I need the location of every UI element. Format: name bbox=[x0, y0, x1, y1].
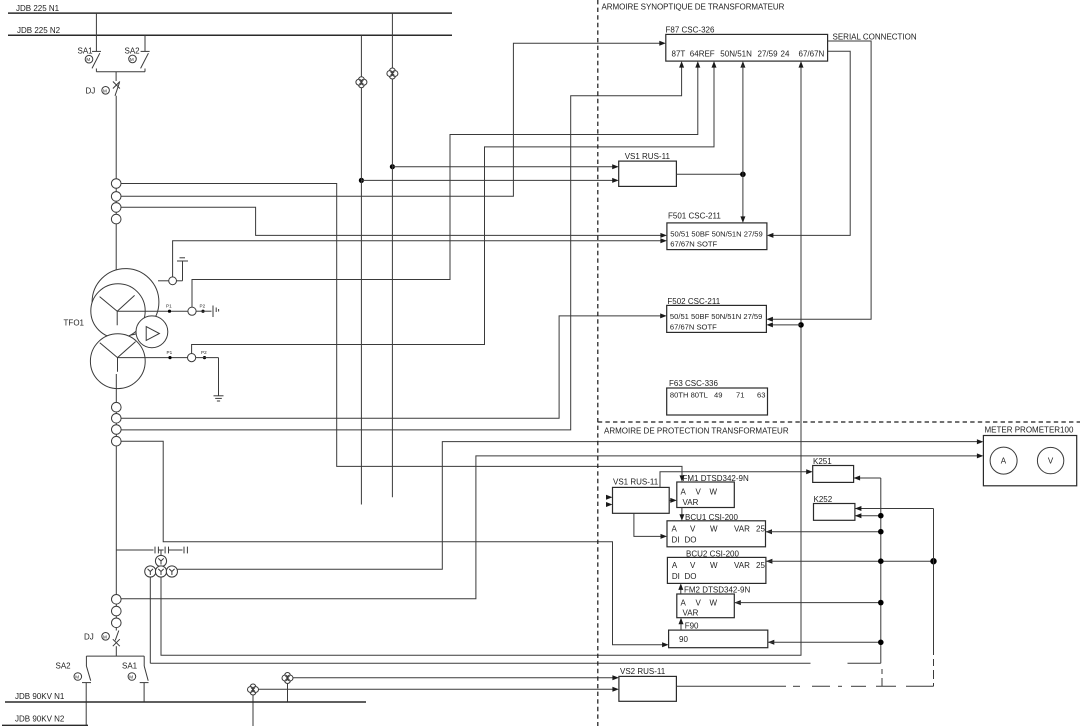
svg-text:M: M bbox=[103, 634, 107, 639]
svg-text:80TH 80TL: 80TH 80TL bbox=[670, 390, 708, 399]
svg-text:SERIAL CONNECTION: SERIAL CONNECTION bbox=[833, 33, 917, 42]
pin arrows into VS2 left bbox=[612, 675, 619, 680]
svg-text:P1: P1 bbox=[166, 304, 172, 309]
svg-text:W: W bbox=[710, 524, 718, 533]
circuit breaker DJ (bottom) bbox=[84, 631, 120, 657]
node junction dot K252 chain bbox=[878, 513, 884, 519]
wire CT2 to F87 left pin bbox=[121, 43, 662, 196]
node junction dot N2-drop to VS1 bbox=[359, 178, 364, 183]
svg-text:63: 63 bbox=[757, 390, 765, 399]
wire K252 right input 1 from VS2 riser bbox=[855, 508, 934, 510]
CT group 90kV side (4 cores) bbox=[112, 402, 122, 446]
wire N2-drop to VS1 lower input 2 bbox=[606, 502, 613, 507]
wire N2-drop to VS1 upper input 2 bbox=[361, 179, 615, 181]
svg-text:P1: P1 bbox=[167, 350, 173, 355]
svg-text:DI: DI bbox=[672, 572, 680, 581]
disconnector SA2 (bottom) bbox=[56, 656, 92, 726]
tertiary neutral CT circle bbox=[169, 277, 177, 285]
svg-text:K252: K252 bbox=[814, 495, 833, 504]
svg-text:SA2: SA2 bbox=[125, 47, 141, 56]
wire 90kV CT3 to 87T of F87 bbox=[121, 65, 682, 430]
wire LV neutral CT to 50N/51N of F87 bbox=[192, 65, 714, 354]
node junction dot BCU2 voltage chain bbox=[878, 558, 884, 564]
node junction dot BCU2 VS2 riser bbox=[930, 558, 936, 564]
wire measurement CT to meter A bbox=[121, 456, 979, 599]
busbar JDB 90KV N1 bbox=[5, 692, 366, 702]
svg-text:87T: 87T bbox=[672, 49, 686, 58]
pin arrow into F501 top bbox=[740, 216, 745, 223]
svg-text:A: A bbox=[672, 524, 678, 533]
relay F87 CSC-326 bbox=[666, 25, 828, 61]
svg-text:TFO1: TFO1 bbox=[64, 319, 85, 328]
svg-text:67/67N: 67/67N bbox=[799, 49, 825, 58]
busbar JDB 225 N1 bbox=[8, 4, 452, 13]
svg-text:25: 25 bbox=[756, 524, 765, 533]
svg-text:V: V bbox=[690, 561, 696, 570]
wire tertiary neutral CT to F501 input 2 bbox=[173, 241, 663, 277]
busbar JDB 90KV N2 bbox=[2, 715, 88, 726]
svg-text:DO: DO bbox=[685, 536, 697, 545]
pin arrows into F87 bottom bbox=[679, 61, 684, 68]
svg-text:VAR: VAR bbox=[683, 609, 699, 618]
relay K251 bbox=[813, 457, 854, 482]
svg-text:A: A bbox=[672, 561, 678, 570]
pin arrow into F90 right bbox=[768, 640, 775, 645]
svg-text:M: M bbox=[75, 675, 79, 680]
svg-text:49: 49 bbox=[714, 390, 722, 399]
node junction dot F90 voltage bbox=[878, 640, 884, 646]
wire CT1 drop into FM1 top (arrow) bbox=[680, 475, 685, 482]
svg-text:F90: F90 bbox=[685, 621, 699, 630]
wire HV neutral CT to 64REF of F87 bbox=[192, 65, 698, 307]
circuit breaker DJ (top) bbox=[86, 72, 120, 96]
wire F87 right stub to F501 right bbox=[770, 51, 850, 235]
node junction dot N1-drop to VS1 bbox=[390, 164, 395, 169]
svg-text:VS1 RUS-11: VS1 RUS-11 bbox=[625, 152, 671, 161]
busbar JDB 225 N2 bbox=[8, 26, 452, 36]
wire VT left secondary (line B) to relay chain bbox=[150, 478, 881, 663]
svg-text:P2: P2 bbox=[200, 304, 206, 309]
svg-text:24: 24 bbox=[781, 49, 790, 58]
wire 27/59 pin drop to F501 top bbox=[742, 65, 744, 220]
svg-text:ARMOIRE DE PROTECTION TRANSFOR: ARMOIRE DE PROTECTION TRANSFORMATEUR bbox=[604, 427, 789, 436]
indicator lamp on 90kV N2 bbox=[248, 684, 259, 726]
HV winding circle (wye) bbox=[91, 284, 145, 338]
LV neutral line P1 P2 bbox=[118, 350, 219, 396]
svg-text:W: W bbox=[710, 598, 718, 607]
pin arrow into F502 left bbox=[660, 313, 667, 318]
svg-text:METER PROMETER100: METER PROMETER100 bbox=[985, 425, 1074, 434]
svg-text:V: V bbox=[690, 524, 696, 533]
pin arrow into F501 right bbox=[767, 233, 774, 238]
svg-text:71: 71 bbox=[736, 390, 744, 399]
wire common bar of SA1/SA2 to DJ bbox=[96, 71, 145, 73]
svg-text:P2: P2 bbox=[201, 350, 207, 355]
svg-text:25: 25 bbox=[756, 561, 765, 570]
wire F90 right to voltage chain bbox=[768, 641, 881, 643]
LV winding circle (wye) bbox=[90, 334, 145, 389]
svg-text:VS1 RUS-11: VS1 RUS-11 bbox=[613, 477, 659, 486]
svg-text:A: A bbox=[681, 598, 687, 607]
svg-text:F501 CSC-211: F501 CSC-211 bbox=[668, 212, 721, 221]
svg-text:64REF: 64REF bbox=[690, 49, 715, 58]
voltage transformer cluster bbox=[145, 550, 178, 577]
wire 90kV CT2 to F502 input bbox=[121, 316, 663, 418]
svg-text:50/51 50BF 50N/51N 27/59: 50/51 50BF 50N/51N 27/59 bbox=[670, 312, 762, 321]
svg-text:27/59: 27/59 bbox=[758, 49, 779, 58]
svg-text:M: M bbox=[103, 88, 107, 93]
HV neutral CT circle bbox=[188, 307, 196, 315]
pin arrow into K251 left bbox=[806, 469, 813, 474]
wire main feeder 225kV bbox=[115, 96, 117, 296]
wire VS1 upper output to 27/59 pin and F501 top bbox=[676, 173, 743, 175]
svg-text:50/51 50BF 50N/51N 27/59: 50/51 50BF 50N/51N 27/59 bbox=[670, 229, 762, 238]
svg-text:A: A bbox=[681, 487, 687, 496]
HV neutral line P1 P2 bbox=[117, 304, 218, 318]
svg-text:FM2 DTSD342-9N: FM2 DTSD342-9N bbox=[684, 586, 750, 595]
wire main feeder 90kV (below transformer) bbox=[115, 374, 117, 631]
pin arrow into BCU2 right bbox=[766, 559, 773, 564]
svg-text:67/67N SOTF: 67/67N SOTF bbox=[670, 240, 717, 249]
node junction dot BCU1 voltage bbox=[878, 529, 884, 535]
node junction dot F502 branch on 67/67N wire bbox=[798, 322, 804, 328]
indicator lamp on 90kV N1 bbox=[282, 673, 293, 703]
pin arrows into F501 left bbox=[660, 233, 667, 238]
svg-text:50N/51N: 50N/51N bbox=[720, 49, 752, 58]
svg-text:67/67N SOTF: 67/67N SOTF bbox=[670, 322, 717, 331]
wire lamp N2 to VS2 input 2 bbox=[258, 688, 616, 690]
wire branch to F502 right row2 bbox=[770, 324, 801, 326]
wire VS1 lower output to FM1 left bbox=[669, 499, 673, 501]
svg-text:A: A bbox=[1001, 457, 1007, 466]
wire VS1 lower top stub to K251 bbox=[660, 472, 809, 488]
relay VS2 RUS-11 bbox=[619, 667, 677, 701]
wire VS1 lower bottom to BCU1 left bbox=[634, 513, 663, 536]
svg-text:SA2: SA2 bbox=[56, 661, 72, 670]
svg-text:M: M bbox=[130, 57, 134, 62]
wire CT3 to F501 input 1 bbox=[121, 207, 663, 235]
svg-text:JDB 90KV N1: JDB 90KV N1 bbox=[15, 692, 65, 701]
disconnector SA1 (bottom) bbox=[122, 656, 149, 702]
svg-text:DJ: DJ bbox=[84, 633, 94, 642]
earth of LV neutral bbox=[214, 396, 224, 401]
wire K252 right input 2 from chain bbox=[855, 515, 881, 517]
wire serial connection from F87 right to F502 bbox=[770, 41, 871, 319]
transformer TFO1 bbox=[64, 269, 168, 389]
svg-text:VAR: VAR bbox=[734, 524, 750, 533]
svg-text:V: V bbox=[1048, 457, 1054, 466]
pin arrow into F87 left bbox=[659, 41, 666, 46]
wire K251 right input from chain bbox=[854, 477, 881, 479]
svg-text:M: M bbox=[86, 57, 90, 62]
relay F63 CSC-336 bbox=[667, 379, 768, 415]
wire FM1 bottom to BCU1 top bbox=[681, 508, 683, 518]
svg-text:VAR: VAR bbox=[734, 561, 750, 570]
relay VS1 RUS-11 (lower) bbox=[613, 477, 670, 513]
svg-text:F502 CSC-211: F502 CSC-211 bbox=[667, 297, 720, 306]
wire BCU2 right to voltage chain and VS2 riser bbox=[766, 560, 934, 562]
relay F502 CSC-211 bbox=[667, 297, 767, 332]
wire FM2 right to voltage chain bbox=[734, 602, 881, 604]
wire 90kV CT4 to F90 bbox=[121, 441, 665, 645]
earth of tertiary neutral bbox=[177, 258, 189, 281]
CT group 225kV side (4 cores) bbox=[111, 179, 121, 224]
svg-text:W: W bbox=[710, 561, 718, 570]
tertiary winding circle bbox=[92, 269, 159, 336]
meter A bbox=[990, 447, 1017, 474]
wye symbol LV bbox=[100, 342, 136, 372]
disconnector SA1 (top) bbox=[78, 13, 102, 72]
wire FM2 top to BCU2 bottom bbox=[680, 587, 682, 594]
svg-text:M: M bbox=[129, 675, 133, 680]
wire tertiary arc to neutral CT bbox=[158, 280, 169, 282]
LV neutral CT circle bbox=[188, 354, 196, 362]
meter FM2 DTSD342-9N bbox=[677, 586, 751, 618]
relay VS1 RUS-11 (upper) bbox=[619, 152, 677, 187]
svg-text:DJ: DJ bbox=[86, 87, 96, 96]
wire N1-drop to VS1 upper input 1 bbox=[392, 166, 615, 168]
svg-text:SA1: SA1 bbox=[122, 661, 138, 670]
svg-text:ARMOIRE SYNOPTIQUE DE TRANSFOR: ARMOIRE SYNOPTIQUE DE TRANSFORMATEUR bbox=[602, 3, 785, 12]
delta winding circle bbox=[136, 316, 168, 348]
svg-text:DO: DO bbox=[685, 572, 697, 581]
svg-text:JDB 225 N2: JDB 225 N2 bbox=[17, 26, 61, 35]
wire voltage drop from busbar N2 bbox=[360, 35, 362, 504]
BCU BCU1 CSI-200 bbox=[667, 513, 766, 547]
delta symbol bbox=[146, 327, 159, 341]
svg-text:W: W bbox=[710, 487, 718, 496]
svg-text:90: 90 bbox=[679, 635, 688, 644]
meter FM1 DTSD342-9N bbox=[677, 474, 749, 508]
HV neutral terminal bar bbox=[212, 306, 214, 318]
pin arrow into FM2 right bbox=[734, 600, 741, 605]
svg-text:VS2 RUS-11: VS2 RUS-11 bbox=[620, 667, 666, 676]
pin arrow into BCU1 right bbox=[766, 529, 773, 534]
meter V bbox=[1037, 447, 1063, 473]
wye symbol HV bbox=[100, 295, 135, 325]
wire VT middle secondary to 67/67N of F87 (line A) bbox=[161, 65, 801, 655]
svg-text:V: V bbox=[696, 487, 702, 496]
svg-text:F63 CSC-336: F63 CSC-336 bbox=[669, 379, 718, 388]
wire VS2 output to K252 riser (watermark gaps) bbox=[676, 509, 933, 687]
svg-text:F87 CSC-326: F87 CSC-326 bbox=[666, 25, 715, 34]
relay F90 bbox=[669, 621, 768, 647]
svg-text:VAR: VAR bbox=[683, 498, 699, 507]
svg-text:V: V bbox=[696, 598, 702, 607]
wire lamp N1 to VS2 input 1 bbox=[293, 677, 616, 679]
wire voltage drop from busbar N1 bbox=[391, 13, 393, 497]
svg-text:JDB 225 N1: JDB 225 N1 bbox=[16, 4, 60, 13]
cabinet boundary dashed vertical bbox=[597, 0, 599, 726]
BCU BCU2 CSI-200 bbox=[667, 549, 766, 583]
svg-text:SA1: SA1 bbox=[78, 47, 94, 56]
node junction dot on 27/59 drop bbox=[740, 172, 746, 178]
svg-text:JDB 90KV N2: JDB 90KV N2 bbox=[15, 715, 65, 724]
wire CT1 to FM1 (down x=336.7 then right y=466.4) bbox=[121, 184, 682, 479]
indicator lamp on N1 drop bbox=[387, 68, 398, 79]
cabinet boundary dashed horizontal bbox=[598, 421, 1080, 423]
wire common bar of bottom SA1/SA2 bbox=[86, 655, 144, 657]
wire watermark remnant dashes bbox=[881, 669, 883, 686]
pin arrows into VS1 upper bbox=[612, 164, 619, 169]
svg-text:K251: K251 bbox=[813, 457, 832, 466]
indicator lamp on N2 drop bbox=[356, 77, 367, 88]
node junction dot FM2 voltage bbox=[878, 600, 884, 606]
svg-text:DI: DI bbox=[672, 536, 680, 545]
wire BCU1 right to voltage chain bbox=[766, 531, 881, 533]
wire N1-drop to VS1 lower input 1 bbox=[606, 495, 613, 500]
meter box METER PROMETER100 bbox=[983, 425, 1076, 486]
disconnector SA2 (top) bbox=[125, 35, 150, 71]
pin arrow into F90 left bbox=[662, 642, 669, 647]
CT group measurement (3 cores) bbox=[112, 595, 122, 628]
relay K252 bbox=[814, 495, 855, 520]
relay F501 CSC-211 bbox=[667, 212, 767, 250]
wire F90 top to FM2 bottom bbox=[680, 621, 682, 630]
pin arrows into F502 right bbox=[766, 317, 773, 322]
pin arrows into METER left bbox=[977, 439, 984, 444]
wire VT right secondary to meter V bbox=[177, 442, 979, 570]
capacitive voltage divider branch bbox=[116, 547, 187, 554]
